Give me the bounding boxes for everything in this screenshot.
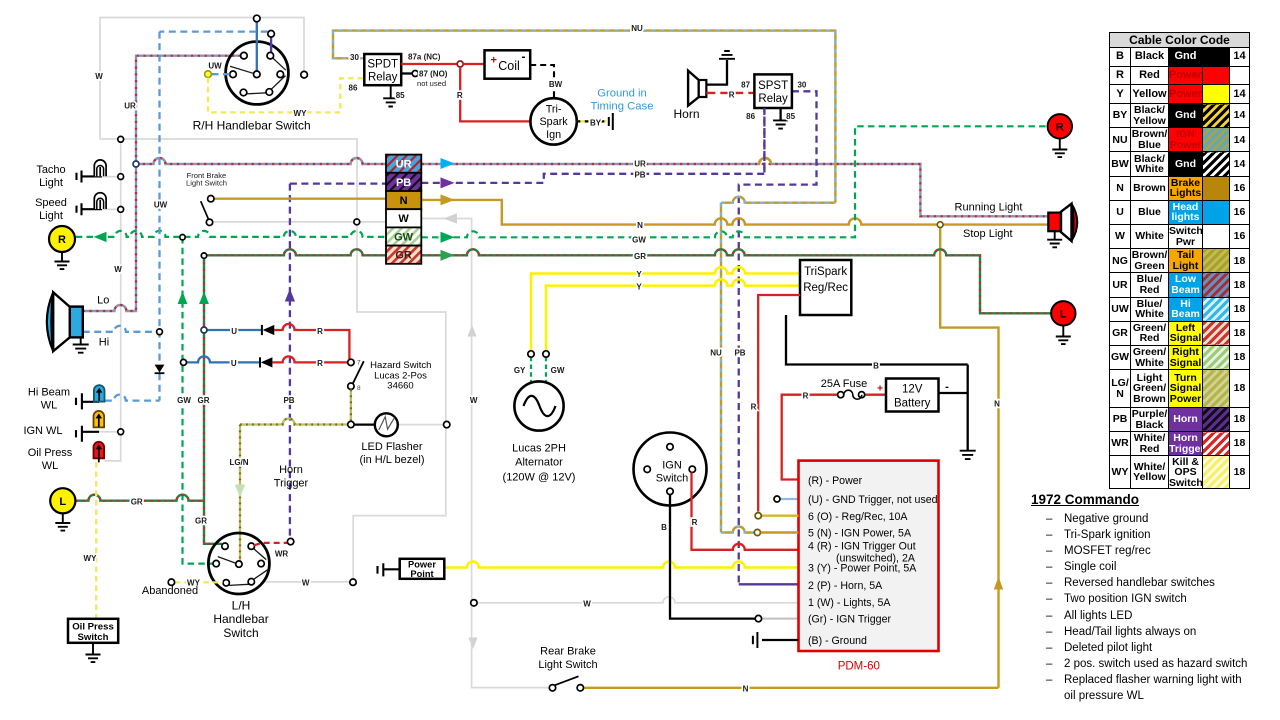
svg-text:U: U: [231, 327, 237, 336]
diode D2 lower: [187, 356, 348, 367]
node on GW bus: [180, 235, 185, 240]
wire NU: SPDT relay to PDM 5(N): [333, 31, 835, 533]
wire LG/N hazard to flasher junction and L/H switch: [235, 389, 351, 561]
svg-text:25A Fuse: 25A Fuse: [821, 378, 867, 390]
svg-text:GW: GW: [551, 366, 565, 375]
svg-text:Light: Light: [39, 177, 63, 189]
wire Gr gray to PDM: [762, 618, 799, 620]
wire R reg rec to 6(O) connector: [758, 295, 800, 512]
oil pressure switch: [68, 619, 118, 662]
wire Hi headlight blue dashed: [83, 326, 160, 332]
node horn trigger connector: [287, 538, 293, 544]
svg-text:W: W: [95, 72, 103, 81]
svg-text:B: B: [661, 523, 667, 532]
svg-text:Ground in: Ground in: [597, 87, 647, 99]
svg-text:(Gr) - IGN Trigger: (Gr) - IGN Trigger: [808, 614, 891, 626]
svg-text:Horn: Horn: [279, 464, 303, 476]
node tacho pin: [118, 174, 124, 180]
wire WY oil press vertical: [95, 462, 97, 619]
wire BW coil to trispark: [530, 65, 554, 98]
svg-text:30: 30: [350, 53, 359, 62]
svg-text:1 (W) - Lights, 5A: 1 (W) - Lights, 5A: [808, 597, 891, 609]
svg-text:Lo: Lo: [97, 294, 109, 306]
svg-text:GW: GW: [177, 396, 191, 405]
LED flasher: [354, 413, 398, 436]
trispark reg rec box: [800, 260, 851, 315]
svg-text:34660: 34660: [387, 381, 413, 392]
wire UW blue dashed to yellow pin: [212, 73, 230, 75]
ground battery: [960, 451, 976, 459]
SPDT relay: [364, 54, 401, 107]
LED Oil Press WL: [94, 442, 105, 463]
wire U stub light blue at PDM: [780, 498, 798, 500]
alternator: [514, 351, 563, 431]
svg-text:Tacho: Tacho: [36, 164, 65, 176]
wire R horn to SPST: [706, 92, 754, 94]
svg-text:-: -: [945, 381, 949, 393]
node on GR bus: [201, 253, 206, 258]
svg-text:UR: UR: [396, 159, 412, 171]
svg-text:NU: NU: [631, 24, 643, 33]
svg-text:Rear Brake: Rear Brake: [540, 645, 596, 657]
wire GR bus and vertical: [76, 249, 1051, 543]
svg-text:W: W: [583, 599, 591, 608]
svg-text:PB: PB: [283, 396, 294, 405]
svg-text:Switch: Switch: [78, 632, 109, 643]
wire W net: R/H switch loop to LED flasher and L/H switch: [99, 18, 446, 580]
svg-text:WL: WL: [41, 400, 58, 412]
wire R coil net: [401, 63, 457, 65]
node W end circle: [350, 579, 356, 585]
R/H handlebar switch: [160, 15, 308, 104]
svg-text:8: 8: [357, 385, 361, 392]
svg-text:3 (Y) - Power Point, 5A: 3 (Y) - Power Point, 5A: [808, 563, 917, 575]
svg-text:TriSpark: TriSpark: [804, 266, 847, 278]
svg-text:N: N: [637, 221, 643, 230]
indicator lamp R yellow: [49, 226, 75, 269]
svg-text:WR: WR: [275, 550, 289, 559]
svg-text:PB: PB: [734, 349, 745, 358]
svg-text:LED Flasher: LED Flasher: [361, 441, 422, 453]
indicator lamp R red: [1048, 114, 1072, 157]
svg-text:87a (NC): 87a (NC): [408, 53, 441, 62]
wire WR red dashed from L/H switch to horn trigger node: [254, 543, 287, 545]
wire GY GW alternator stubs: [531, 357, 546, 383]
svg-text:R: R: [457, 91, 463, 100]
svg-text:R: R: [751, 403, 757, 412]
svg-text:Reg/Rec: Reg/Rec: [803, 282, 848, 294]
svg-text:GW: GW: [632, 236, 646, 245]
node speed pin: [118, 207, 124, 213]
svg-text:LG/N: LG/N: [229, 458, 248, 467]
svg-text:4 (R) - IGN Trigger Out: 4 (R) - IGN Trigger Out: [808, 541, 916, 553]
horn: [688, 51, 735, 106]
wire WY abandoned stub: [175, 581, 223, 583]
svg-text:87: 87: [741, 80, 750, 89]
tail light icon: [1047, 204, 1077, 248]
svg-text:R: R: [692, 518, 698, 527]
wire PB bus: [285, 91, 817, 584]
arrow UR cyan: [441, 158, 455, 169]
svg-text:Switch: Switch: [656, 473, 688, 485]
svg-text:not used: not used: [417, 79, 446, 88]
svg-text:PB: PB: [396, 177, 411, 189]
wire 5 N stub: [761, 531, 799, 533]
svg-text:N: N: [994, 400, 1000, 409]
svg-text:R/H Handlebar Switch: R/H Handlebar Switch: [193, 119, 311, 133]
svg-text:BY: BY: [590, 118, 602, 127]
node abandoned connector: [168, 579, 174, 585]
svg-text:R: R: [317, 359, 323, 368]
arrow W up on vertical: [467, 325, 476, 337]
wire GW bus: R indicator to L/H switch: [76, 126, 1048, 563]
svg-text:87 (NO): 87 (NO): [419, 70, 448, 79]
svg-text:2 (P) - Horn, 5A: 2 (P) - Horn, 5A: [808, 580, 883, 592]
wire R IGN switch to PDM 4R: [692, 473, 799, 550]
IGN switch: [634, 433, 707, 506]
svg-text:R: R: [58, 234, 66, 246]
node W loop branch: [118, 136, 124, 142]
wire W to PDM 1(W) pin: [474, 597, 799, 603]
svg-text:GR: GR: [395, 250, 412, 262]
svg-text:(120W @ 12V): (120W @ 12V): [503, 472, 576, 484]
diode D1 upper: [204, 324, 349, 359]
node on GW vertical: [181, 359, 187, 365]
svg-text:Speed: Speed: [35, 197, 67, 209]
arrow GW: [441, 232, 455, 243]
svg-text:UW: UW: [208, 62, 222, 71]
svg-text:(R) - Power: (R) - Power: [808, 475, 863, 487]
svg-text:WY: WY: [294, 109, 308, 118]
svg-text:L: L: [59, 496, 66, 508]
LED Hi Beam WL: [76, 385, 105, 409]
arrow W left near block: [444, 213, 458, 224]
headlight icon: [47, 292, 89, 352]
wire Y power point to PDM 3(Y): [444, 562, 798, 568]
svg-text:R: R: [729, 91, 735, 100]
svg-text:-: -: [522, 50, 526, 64]
svg-text:W: W: [302, 579, 310, 588]
wire B ground pin PDM: [762, 639, 799, 641]
wire B reg rec to battery minus: [786, 315, 968, 451]
svg-text:86: 86: [349, 84, 358, 93]
svg-text:GR: GR: [131, 497, 143, 506]
svg-text:GR: GR: [198, 396, 210, 405]
svg-text:NU: NU: [710, 349, 722, 358]
svg-text:Abandoned: Abandoned: [142, 585, 198, 597]
svg-text:Hi Beam: Hi Beam: [28, 387, 70, 399]
node W junction at 1W: [471, 600, 477, 606]
wire UW vertical to headlight Hi and diode to Hi Beam WL: [105, 32, 165, 401]
trispark ignition: [530, 98, 576, 144]
node N junction stop light: [937, 222, 943, 228]
svg-text:Switch: Switch: [223, 626, 258, 640]
svg-text:Spark: Spark: [539, 116, 568, 128]
svg-text:Running Light: Running Light: [955, 202, 1023, 214]
svg-text:Horn: Horn: [673, 107, 699, 121]
hazard switch: [348, 359, 364, 392]
bulb speed light: [77, 193, 107, 216]
rear brake light switch: [549, 676, 583, 691]
svg-text:UR: UR: [124, 102, 136, 111]
node Hi junction: [157, 329, 163, 335]
svg-text:N: N: [743, 684, 749, 693]
node UR junction: [133, 161, 139, 167]
wire WY from R/H switch to SPDT relay 86: [208, 78, 364, 113]
node 5 N connector: [754, 529, 760, 535]
svg-text:Point: Point: [410, 569, 433, 579]
front brake light switch: [201, 196, 214, 226]
node 6 O connector: [755, 513, 761, 519]
svg-text:Light Switch: Light Switch: [186, 178, 227, 187]
node UW yellow pin: [205, 71, 212, 78]
svg-text:U: U: [231, 359, 237, 368]
wire W bus from front brake switch through block to rear brake switch: [213, 219, 550, 688]
bulb tacho light: [77, 160, 107, 183]
svg-text:(in H/L bezel): (in H/L bezel): [359, 454, 424, 466]
wire UR bus: R/H switch to headlight Lo and tail light: [83, 56, 1049, 311]
svg-text:PDM-60: PDM-60: [838, 661, 880, 673]
svg-text:L/H: L/H: [232, 598, 251, 612]
svg-text:R: R: [317, 327, 323, 336]
labels component names: [23, 87, 1022, 671]
node 87 NO: [412, 71, 418, 77]
PDM-60 box: [799, 461, 939, 673]
L/H handlebar switch: [208, 533, 269, 594]
svg-text:SPST: SPST: [758, 80, 788, 92]
svg-text:W: W: [398, 213, 409, 225]
node U pin: [774, 496, 780, 502]
svg-text:Tri-: Tri-: [546, 104, 562, 116]
node W junction at block: [354, 219, 360, 225]
wire SPST 86 purple to PB bus: [763, 108, 765, 173]
svg-text:+: +: [491, 55, 497, 67]
svg-text:W: W: [114, 265, 122, 274]
svg-text:Battery: Battery: [894, 397, 931, 409]
arrow W down on vertical: [468, 638, 477, 650]
wire N rear brake run: [584, 687, 999, 689]
labels wire names: [84, 24, 1001, 693]
wire O 6 pin: [762, 515, 799, 517]
indicator lamp L red: [1051, 301, 1075, 344]
svg-text:GY: GY: [514, 366, 526, 375]
svg-text:N: N: [400, 195, 408, 207]
svg-text:L: L: [1060, 308, 1067, 320]
svg-text:Oil Press: Oil Press: [28, 447, 73, 459]
svg-text:IGN: IGN: [662, 460, 682, 472]
svg-text:Hi: Hi: [99, 337, 109, 349]
svg-text:85: 85: [786, 112, 795, 121]
svg-text:(U) - GND Trigger, not used: (U) - GND Trigger, not used: [808, 494, 938, 506]
node LG/N junction: [348, 421, 354, 427]
node coil junction: [457, 61, 463, 67]
svg-text:Coil: Coil: [498, 59, 520, 73]
arrow N: [441, 194, 455, 205]
svg-text:Relay: Relay: [758, 93, 788, 105]
svg-text:5 (N) - IGN Power, 5A: 5 (N) - IGN Power, 5A: [808, 528, 912, 540]
wire N bus: front brake to stop light: [214, 199, 1048, 688]
node flasher right pin: [444, 421, 450, 427]
svg-text:Light: Light: [39, 210, 63, 222]
node Gr connector: [755, 615, 761, 621]
svg-text:GW: GW: [394, 231, 414, 243]
svg-text:6 (O) - Reg/Rec, 10A: 6 (O) - Reg/Rec, 10A: [808, 511, 908, 523]
svg-text:7: 7: [357, 360, 361, 367]
svg-text:(B) - Ground: (B) - Ground: [808, 635, 867, 647]
indicator lamp L yellow: [50, 488, 75, 530]
svg-text:Y: Y: [636, 282, 642, 291]
svg-text:Y: Y: [636, 270, 642, 279]
power point box: [378, 559, 445, 579]
node IGN WL junction: [118, 429, 124, 435]
wire Y alternator pair: [531, 267, 800, 351]
svg-text:W: W: [470, 396, 478, 405]
svg-text:BW: BW: [549, 80, 563, 89]
wire 87 NO stub: [401, 72, 412, 74]
svg-text:Relay: Relay: [368, 72, 398, 84]
svg-text:30: 30: [797, 80, 806, 89]
svg-text:B: B: [873, 362, 879, 371]
svg-text:Alternator: Alternator: [515, 457, 563, 469]
arrow GR: [441, 250, 455, 261]
svg-text:UR: UR: [634, 160, 646, 169]
SPST relay: [754, 74, 792, 128]
cable block column: [386, 155, 421, 264]
svg-text:UW: UW: [154, 201, 168, 210]
svg-text:SPDT: SPDT: [367, 59, 398, 71]
node on GR vertical: [201, 327, 207, 333]
svg-text:Handlebar: Handlebar: [213, 612, 268, 626]
svg-text:R: R: [803, 392, 809, 401]
arrow PB purple: [441, 177, 455, 188]
svg-text:GR: GR: [195, 517, 207, 526]
svg-text:Trigger: Trigger: [274, 478, 309, 490]
coil: [485, 50, 531, 79]
svg-text:Ign: Ign: [546, 129, 561, 141]
svg-text:85: 85: [396, 91, 405, 100]
svg-text:+: +: [877, 384, 883, 395]
svg-text:Light Switch: Light Switch: [538, 659, 597, 671]
LED IGN WL: [76, 411, 104, 442]
svg-text:WY: WY: [84, 554, 98, 563]
svg-text:86: 86: [746, 112, 755, 121]
svg-text:GR: GR: [634, 252, 646, 261]
wire B IGN switch to Gr pin: [670, 495, 755, 619]
svg-text:PB: PB: [634, 171, 645, 180]
fuse and battery: [782, 379, 939, 480]
svg-text:IGN WL: IGN WL: [23, 425, 62, 437]
wire BY to timing case ground: [577, 113, 613, 130]
svg-text:Timing Case: Timing Case: [591, 100, 654, 112]
svg-text:Lucas 2PH: Lucas 2PH: [512, 443, 566, 455]
svg-text:Stop Light: Stop Light: [963, 228, 1013, 240]
svg-text:R: R: [1056, 121, 1064, 133]
svg-text:WL: WL: [42, 460, 59, 472]
svg-text:12V: 12V: [902, 383, 923, 395]
